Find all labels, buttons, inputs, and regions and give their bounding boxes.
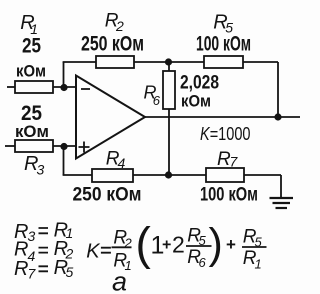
node top (R2-R5-R6) <box>165 58 172 65</box>
wire R6 top <box>168 62 170 71</box>
svg-text:6: 6 <box>199 255 207 270</box>
svg-text:а: а <box>112 267 127 294</box>
svg-text:6: 6 <box>153 93 161 108</box>
minus sign <box>81 88 90 90</box>
value 25 kOhm (R3) <box>15 102 49 141</box>
wire input minus stub <box>7 86 15 88</box>
label R5 <box>213 12 233 36</box>
svg-text:2: 2 <box>172 232 185 258</box>
wire R7 to ground corner <box>244 174 281 176</box>
resistor R4 <box>92 169 133 182</box>
formula R4 = R2 <box>14 238 74 264</box>
svg-text:2: 2 <box>124 236 133 251</box>
svg-text:(: ( <box>136 218 152 270</box>
formula K equation <box>86 218 266 274</box>
wire R2 to R5 <box>134 61 204 63</box>
wire R3 to op-amp <box>53 145 76 147</box>
svg-text:7: 7 <box>230 154 239 170</box>
svg-text:5: 5 <box>66 264 74 280</box>
svg-text:кОм: кОм <box>16 62 46 81</box>
svg-text:): ) <box>209 220 223 268</box>
wire plus node down <box>63 146 65 175</box>
wire right down to output <box>277 62 279 117</box>
svg-text:кОм: кОм <box>181 92 211 111</box>
value 25 kOhm (R1) <box>16 35 46 81</box>
label R1 <box>20 12 38 37</box>
wire minus node up <box>63 62 65 88</box>
label R7 <box>217 149 239 170</box>
value 2,028 kOhm (R6) <box>180 73 219 111</box>
svg-text:100 кОм: 100 кОм <box>196 33 251 56</box>
svg-text:4: 4 <box>28 248 36 264</box>
wire R1 to op-amp <box>53 86 76 88</box>
svg-text:250 кОм: 250 кОм <box>73 185 142 206</box>
op-amp U1 <box>76 76 145 159</box>
svg-text:кОм: кОм <box>15 122 49 141</box>
wire down to ground <box>280 175 282 197</box>
ground <box>270 198 294 208</box>
label R6 <box>144 83 161 109</box>
svg-text:1: 1 <box>255 256 262 271</box>
svg-text:250 кОм: 250 кОм <box>81 33 144 56</box>
svg-text:4: 4 <box>118 155 126 171</box>
wire bottom to R4 <box>63 174 92 176</box>
svg-text:R: R <box>14 258 28 280</box>
formula R3 = R1 <box>14 220 73 244</box>
svg-text:K: K <box>86 240 101 262</box>
svg-text:+: + <box>226 235 236 254</box>
resistor R7 <box>206 168 244 182</box>
resistor R2 <box>96 56 134 68</box>
label R3 <box>24 153 45 178</box>
output wire <box>145 116 300 118</box>
svg-text:25: 25 <box>22 35 41 58</box>
svg-text:3: 3 <box>37 162 45 178</box>
wire R5 to right corner <box>243 61 278 63</box>
svg-text:2,028: 2,028 <box>180 73 219 94</box>
node output <box>274 113 281 120</box>
node plus input <box>60 143 67 150</box>
svg-text:3: 3 <box>28 228 36 244</box>
plus sign <box>79 142 90 153</box>
wire top to R2 <box>63 61 96 63</box>
resistor R5 <box>204 56 243 68</box>
svg-text:7: 7 <box>28 266 37 282</box>
resistor R3 <box>15 140 53 152</box>
formula R7 = R5 <box>14 257 74 281</box>
wire R6 bottom to lower node <box>168 109 170 175</box>
svg-text:K=1000: K=1000 <box>200 124 251 144</box>
svg-text:100 кОм: 100 кОм <box>200 185 258 206</box>
label R2 <box>105 11 124 35</box>
label R4 <box>106 149 126 172</box>
wire R4 to R7 <box>133 174 206 176</box>
node minus input <box>60 84 67 91</box>
resistor R1 <box>15 81 53 93</box>
svg-text:+: + <box>162 237 171 254</box>
resistor R6 <box>163 71 175 109</box>
node bottom (R4-R7-R6) <box>165 171 172 178</box>
wire input plus stub <box>5 145 15 147</box>
